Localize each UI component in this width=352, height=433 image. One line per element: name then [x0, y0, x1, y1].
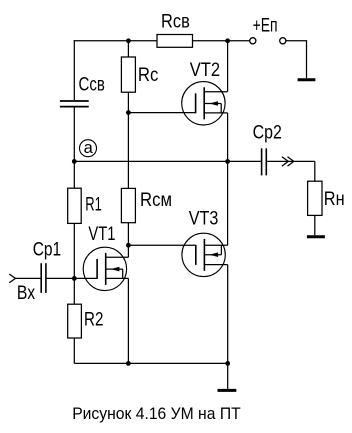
- terminal circle right of +Еп gap: [280, 38, 286, 44]
- junction bottom bus / VT3 source / main ground: [225, 361, 230, 366]
- wire VT2 gate lead: [128, 112, 195, 114]
- wire main ground drop: [227, 363, 229, 389]
- junction bus / VT2 source / VT3 drain: [225, 159, 230, 164]
- svg-text:VT3: VT3: [189, 209, 219, 230]
- transistor VT1 (FET): [83, 247, 128, 290]
- ground top-right: [298, 78, 316, 81]
- junction bottom bus / VT1 source: [126, 361, 131, 366]
- transistor VT2 (FET): [182, 82, 228, 125]
- wire R2 bottom to ground bus corner: [73, 338, 75, 363]
- wire middle column (junction down to Rсм, crossing bus): [127, 113, 129, 189]
- resistor Rc: [121, 57, 135, 92]
- resistor R1: [68, 188, 82, 223]
- junction node a (left column / output bus): [72, 159, 77, 164]
- wire top rail right (Rсв to +Еп terminal): [193, 40, 250, 42]
- capacitor Ср1: [41, 263, 46, 293]
- wire Rc bottom to gate junction: [127, 92, 129, 112]
- junction top rail / Rc: [126, 38, 131, 43]
- wire from right terminal to top-right ground: [286, 41, 307, 79]
- wire left column top (rail to Ссв): [73, 41, 75, 100]
- resistor Rсм: [121, 188, 135, 222]
- wire output bus (node a to Cp2): [74, 160, 261, 162]
- wire Ссв to node a: [73, 108, 75, 162]
- transistor VT3 (FET, mirrored): [182, 233, 228, 276]
- wire Rн bottom to ground: [314, 215, 316, 235]
- wire node a down to R1: [73, 161, 75, 188]
- wire VT1 source down to ground bus: [127, 278, 129, 363]
- wire VT3 drain up to bus: [227, 161, 229, 245]
- svg-text:VT2: VT2: [190, 60, 221, 81]
- svg-text:R2: R2: [84, 310, 103, 331]
- wire top rail left (Ссв top to Rсв left): [74, 40, 157, 42]
- svg-text:Rсв: Rсв: [161, 12, 190, 33]
- wire output corner down to Rн: [314, 161, 316, 181]
- resistor Rсв: [157, 35, 193, 48]
- wire VT2 source down to bus: [227, 113, 229, 161]
- junction Rсм / VT1 drain / VT3 gate: [126, 243, 131, 248]
- svg-text:Rн: Rн: [324, 189, 345, 210]
- node a circled label: [80, 139, 97, 157]
- wire R1 bottom to input junction: [73, 223, 75, 278]
- wire VT2 drain up to rail: [227, 41, 229, 92]
- wire Cp1 to junction: [47, 277, 75, 279]
- svg-text:Rсм: Rсм: [140, 190, 172, 211]
- wire junction to VT1 gate bar: [74, 277, 97, 279]
- wire VT3 gate lead: [128, 244, 195, 246]
- svg-text:R1: R1: [85, 194, 102, 215]
- svg-text:а: а: [84, 139, 94, 157]
- svg-text:VT1: VT1: [88, 224, 115, 245]
- wire Rсм bottom to VT1 drain junction: [127, 223, 129, 246]
- ground below Rн: [307, 235, 325, 238]
- svg-text:Ср1: Ср1: [33, 239, 61, 260]
- svg-text:Ссв: Ссв: [79, 74, 105, 95]
- resistor Rн: [308, 181, 322, 215]
- ground main: [218, 389, 237, 392]
- svg-text:Рисунок 4.16 УМ на ПТ: Рисунок 4.16 УМ на ПТ: [72, 405, 241, 423]
- svg-text:Ср2: Ср2: [253, 122, 282, 143]
- junction top rail / VT2 drain: [225, 38, 230, 43]
- capacitor Ссв: [60, 101, 89, 107]
- svg-text:Rс: Rс: [138, 65, 159, 86]
- wire junction down to R2: [73, 278, 75, 304]
- svg-text:Вх: Вх: [17, 283, 36, 304]
- resistor R2: [68, 304, 82, 338]
- wire input to Cp1: [16, 277, 41, 279]
- junction Rc / VT2 gate: [126, 110, 131, 115]
- terminal circle left of +Еп gap: [250, 38, 256, 44]
- output port chevron double: [282, 157, 294, 166]
- wire VT3 source down to ground bus: [227, 265, 229, 364]
- wire rail to Rc: [127, 41, 129, 57]
- junction Cp1 / R1 / R2 / VT1 gate: [72, 276, 77, 281]
- svg-text:+Еп: +Еп: [253, 16, 278, 37]
- input port chevron Вх: [9, 274, 15, 283]
- wire bottom ground bus: [74, 362, 227, 364]
- wire junction down to VT1 drain stub: [127, 245, 129, 257]
- wire Cp2 to output corner: [267, 160, 315, 162]
- capacitor Ср2: [262, 148, 267, 175]
